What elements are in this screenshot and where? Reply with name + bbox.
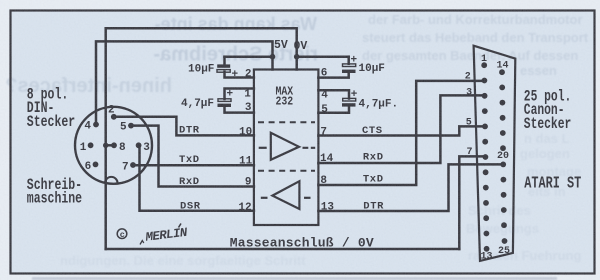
wire: MAX232 pin13 DTR to DB25 pin20 (318, 164, 503, 211)
faint page texture below border (32, 277, 557, 280)
ghost bleed-through text top-right (362, 12, 589, 78)
wire: MAX232 pin7 CTS to DB25 pin5 (318, 126, 484, 135)
DB25 pin labels (465, 54, 510, 263)
U1 internal dashed separator lower (258, 170, 315, 172)
capacitor C1 10uF left leads (223, 57, 226, 65)
U1 internal dashed separator upper (258, 121, 315, 123)
wire: DIN pin2 to MAX232 pin10 DTR (114, 117, 254, 136)
DB25 pin dots left column (481, 62, 489, 251)
copyright MERLIN signature (117, 224, 188, 245)
scan noise overlay (0, 0, 1, 1)
DIN pin 8 dot (111, 142, 117, 148)
DIN pin 3 dot (136, 142, 142, 148)
DB25 pin dots right column (499, 69, 507, 244)
wire: DIN pin3 to MAX232 pin12 DSR (140, 145, 254, 211)
DIN pin 7 dot (130, 162, 136, 168)
ghost bleed-through text top-left (mirrored) (5, 14, 318, 97)
U1 pin number labels right (320, 68, 334, 214)
DIN pin number labels (80, 105, 150, 174)
capacitor C4 4.7uF right leads (318, 90, 349, 98)
DIN pin 5 dot (128, 123, 134, 129)
label U1 MAX 232 (276, 86, 294, 109)
op-amp U1 MAX232 body (254, 70, 319, 226)
DIN pin 2 dot (111, 114, 117, 120)
wire: Masseanschluss 0V bottom bus (106, 248, 460, 251)
U1 driver output dash (303, 147, 316, 149)
DIN pin 1 dot (88, 142, 94, 148)
U1 receiver triangle (272, 181, 299, 209)
capacitor C4 4.7uF right plates (342, 98, 356, 106)
junction dot ground vertical at pin8 (103, 143, 108, 148)
wire: 5V from DIN pin4 to MAX232 pin16 (96, 41, 273, 124)
wire: junction 0V to C2 top (297, 55, 349, 58)
U1 receiver output dash (304, 197, 311, 199)
label: 25 pol. Canon-Stecker (524, 89, 571, 133)
DIN pin 4 dot (93, 122, 99, 128)
ghost bleed-through text bottom-left (60, 253, 306, 268)
DIN pin dots (88, 54, 300, 168)
wire: DIN pin5 to MAX232 pin9 RxD (131, 126, 254, 187)
wire: MAX232 pin8 TxD to DB25 pin2 (318, 81, 484, 185)
wire: top 0V bus from DIN ground vertical to 0V pin (106, 28, 297, 145)
ghost bleed-through text bottom-right (466, 131, 581, 263)
label: Schreibmaschine (27, 176, 82, 208)
DIN pin 6 dot (93, 162, 99, 168)
capacitor C2 10uF right leads (347, 57, 350, 64)
wire: junction 5V to C1 top (225, 55, 273, 58)
label: ATARI ST (524, 175, 581, 194)
junction dot 0V rail (294, 54, 300, 60)
signal labels left side (179, 125, 201, 213)
signal labels right side (362, 125, 384, 213)
U1 driver triangle (271, 133, 299, 160)
wire: MAX232 pin14 RxD to DB25 pin3 (318, 95, 484, 163)
U1 receiver input dash (261, 197, 268, 199)
label: 8 pol. DIN-Stecker (27, 86, 75, 132)
capacitor C3 4.7uF left leads (225, 89, 254, 100)
U1 pin number labels left (238, 68, 252, 214)
U1 driver input dash (259, 147, 267, 149)
capacitor C2 10uF right plates (342, 64, 356, 73)
wire: DIN pin8 stub to ground vertical (106, 144, 114, 147)
capacitor C1 10uF left plates (217, 64, 230, 72)
junction dot 5V rail (270, 54, 276, 60)
wire: DIN ground vertical down to Masse bus (104, 145, 107, 249)
wire: DB25 pin7 ground riser (459, 156, 484, 249)
wire: DIN pin7 to MAX232 pin11 TxD (133, 164, 254, 167)
DIN connector J1 circle (75, 107, 152, 184)
DIN connector key notch (105, 177, 118, 183)
capacitor C3 4.7uF left plates (218, 99, 232, 107)
DB25 connector J2 shell (474, 46, 516, 261)
